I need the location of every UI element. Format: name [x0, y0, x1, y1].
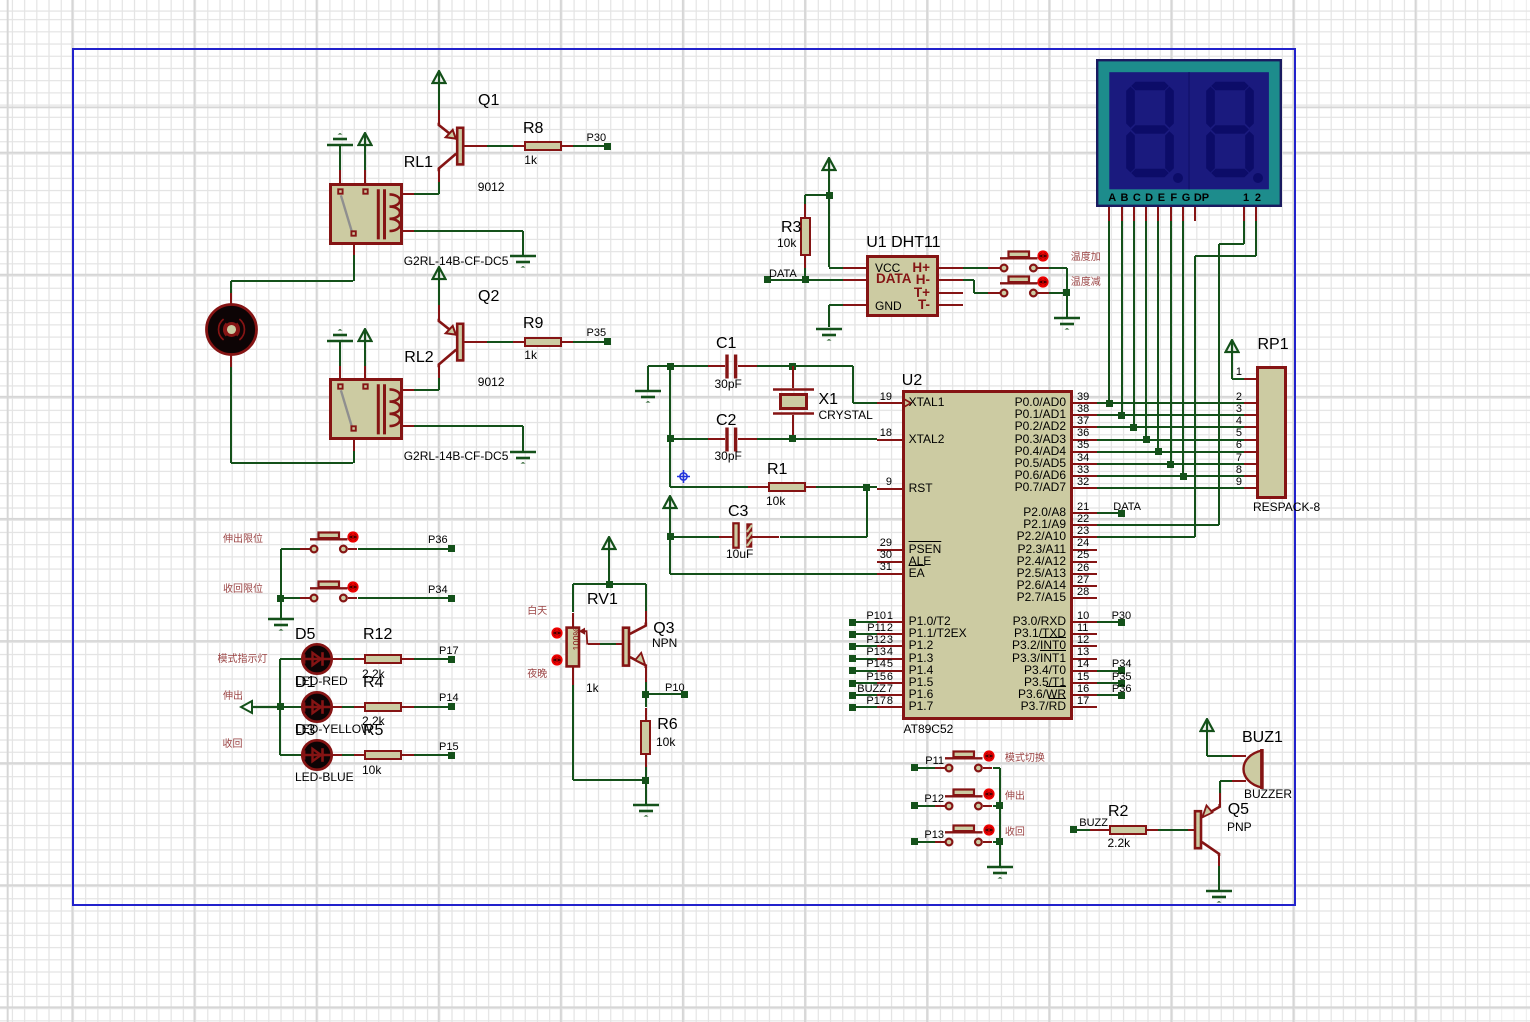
display segment E pin [1157, 207, 1159, 221]
U2 pin number 4 [863, 646, 893, 658]
wire P0.0 to RP1 [1097, 402, 1244, 404]
U2 pin 18 stub [877, 439, 901, 441]
wire [1231, 353, 1233, 379]
label R8 [523, 120, 543, 138]
wire net P17 [414, 658, 452, 660]
wire [572, 584, 574, 612]
wire [280, 549, 282, 619]
push button (收回) [941, 822, 1003, 850]
RP1 pin number 1 [1222, 366, 1242, 378]
wire [230, 367, 232, 463]
wire [1220, 780, 1232, 782]
net label P35 [587, 327, 607, 339]
wire [1049, 292, 1067, 294]
X1 bottom lead [792, 415, 794, 439]
terminal P13 [849, 655, 856, 662]
wire [645, 682, 647, 694]
RL2 pin stub [364, 366, 366, 379]
U2 pin number 35 [1077, 439, 1089, 451]
U2 pin name [926, 652, 1066, 665]
label 收回 [1005, 827, 1025, 838]
junction [642, 777, 649, 784]
label R4 value [362, 715, 385, 728]
net label P12 [826, 634, 886, 646]
label Q5 [1228, 801, 1249, 819]
microcontroller U2 AT89C52 [902, 390, 1073, 720]
terminal P11 [849, 631, 856, 638]
DHT11 GND pin stub [843, 304, 867, 306]
RP1 pin 9 stub [1244, 487, 1256, 489]
label 模式切换 [1005, 753, 1045, 764]
power VCC arrow (buzzer) [1199, 718, 1215, 733]
push button (伸出限位) [306, 529, 368, 557]
wire [646, 693, 685, 695]
wire [573, 779, 646, 781]
label RESPACK-8 [1253, 501, 1320, 514]
wire net P12 [853, 645, 878, 647]
wire [805, 194, 829, 196]
U2 pin name [926, 627, 1066, 640]
Q2 base stub [463, 341, 487, 343]
label C1 value [715, 378, 742, 391]
Q2 emitter lead [438, 305, 440, 319]
U2 pin number 23 [1077, 525, 1089, 537]
net label P36 [428, 534, 448, 546]
display pin label A [1103, 192, 1121, 204]
wire net P14 [853, 670, 878, 672]
label R5 value [362, 764, 381, 777]
wire [573, 583, 646, 585]
U2 pin number 10 [1077, 610, 1089, 622]
terminal P15 [849, 680, 856, 687]
RP1 pin number 6 [1222, 439, 1242, 451]
U2 pin name P1.4 [909, 664, 934, 677]
wire net P11 [914, 767, 935, 769]
junction [789, 435, 796, 442]
wire P2.2 to display digit 2 [1097, 536, 1195, 538]
label R3 value [777, 237, 796, 250]
net label P12 [904, 793, 944, 805]
junction [996, 838, 1003, 845]
wire [828, 171, 830, 268]
terminal P12 [911, 802, 918, 809]
DHT11 DATA pin stub [843, 279, 867, 281]
R2 right lead [1147, 829, 1158, 831]
interactive button actuator icon [1037, 250, 1049, 262]
label C3 [728, 503, 748, 521]
label R1 [767, 461, 787, 479]
wire net BUZZ [1073, 829, 1090, 831]
RP1 pin number 9 [1222, 476, 1242, 488]
wire [993, 767, 1000, 769]
wire [669, 509, 671, 574]
transistor Q3 (NPN) [621, 608, 651, 672]
U2 pin number 28 [1077, 586, 1089, 598]
power VCC arrow (RL2 coil contact) [357, 328, 373, 343]
U2 pin number 15 [1077, 671, 1089, 683]
capacitor C2 [724, 427, 739, 452]
terminal P34 [448, 595, 455, 602]
label R2 value [1108, 837, 1131, 850]
U2 pin name [926, 664, 1066, 677]
net label P34 [428, 584, 448, 596]
U2 pin number 17 [1077, 695, 1089, 707]
Q5 collector lead [1218, 854, 1220, 867]
wire net P36 [358, 548, 452, 550]
wire [522, 231, 524, 256]
R8 left lead [513, 145, 524, 147]
terminal P14 [448, 703, 455, 710]
wire digit 2 [1195, 255, 1256, 257]
RP1 pin 7 stub [1244, 463, 1256, 465]
U2 pin name [909, 555, 932, 568]
RP1 pin 3 stub [1244, 414, 1256, 416]
display segment G pin [1182, 207, 1184, 221]
label Q1 [478, 92, 499, 110]
U2 pin name [926, 408, 1066, 421]
wire [645, 694, 647, 707]
U2 pin number 16 [1077, 683, 1089, 695]
label D1 [295, 674, 315, 692]
terminal DATA (right) [1118, 510, 1125, 517]
label 白天 [527, 606, 547, 617]
label RV1 [587, 591, 618, 609]
display pin label F [1165, 192, 1183, 204]
label RL2 [404, 349, 433, 367]
junction [667, 363, 674, 370]
U2 pin number 29 [862, 537, 892, 549]
U2 pin 14 stub [1073, 670, 1097, 672]
crystal X1 [771, 387, 816, 416]
label R2 [1108, 803, 1128, 821]
label Q3 [653, 620, 674, 638]
RV1 wiper lead [588, 643, 601, 645]
interactive button actuator icon [983, 824, 995, 836]
button pin stub [983, 767, 993, 769]
LED cathode lead [333, 658, 342, 660]
U2 pin 7 stub [877, 694, 901, 696]
U2 pin number 37 [1077, 415, 1089, 427]
wire [280, 658, 302, 660]
button pin stub [1037, 267, 1049, 269]
RV1 wiper percent [573, 627, 583, 650]
wire [487, 341, 513, 343]
wire [339, 342, 341, 366]
relay RL2 [329, 378, 403, 440]
wire [353, 255, 355, 281]
wire [757, 438, 878, 440]
resistor pack RP1 RESPACK-8 [1256, 366, 1286, 499]
label C2 [716, 412, 736, 430]
C1 left lead [708, 365, 725, 367]
ground (RL2 coil) [509, 450, 537, 466]
U2 pin name [926, 433, 1066, 446]
terminal P10 [681, 691, 688, 698]
wire net P15 [853, 682, 878, 684]
LED D5 LED-RED [300, 642, 334, 676]
RP1 pin 4 stub [1244, 426, 1256, 428]
U2 pin number 33 [1077, 464, 1089, 476]
junction [802, 276, 809, 283]
resistor lead [402, 754, 414, 756]
U2 pin number 7 [863, 683, 893, 695]
Q1 base stub [463, 145, 487, 147]
wire [414, 389, 439, 391]
U2 pin number 12 [1077, 634, 1089, 646]
U2 pin name [926, 700, 1066, 713]
U2 pin 13 stub [1073, 658, 1097, 660]
display pin label D [1140, 192, 1158, 204]
net label P13 [826, 646, 886, 658]
label R9 [523, 315, 543, 333]
U2 pin name [926, 530, 1066, 543]
R3 bottom lead [804, 256, 806, 268]
U2 pin 10 stub [1073, 621, 1097, 623]
X1 top lead [792, 366, 794, 388]
junction [277, 595, 284, 602]
DHT11 H- pin stub [939, 279, 964, 281]
button pin stub [348, 548, 358, 550]
U2 pin name P1.2 [909, 639, 934, 652]
wire net P15 [414, 754, 452, 756]
terminal BUZZ [1070, 826, 1077, 833]
wire [364, 342, 366, 366]
R6 top lead [645, 708, 647, 720]
U2 pin number 1 [863, 610, 893, 622]
ground (DHT11) [815, 327, 843, 343]
U2 pin 36 stub [1073, 439, 1097, 441]
display segment B pin [1121, 207, 1123, 221]
terminal P11 [911, 764, 918, 771]
Q3 base lead [616, 643, 623, 645]
U2 pin number 36 [1077, 427, 1089, 439]
label D3 [295, 722, 315, 740]
LED cathode lead [333, 754, 342, 756]
U2 pin name [926, 615, 1066, 628]
terminal BUZZ [849, 692, 856, 699]
U2 pin name [926, 591, 1066, 604]
junction [996, 802, 1003, 809]
label Q3 value [652, 637, 677, 650]
U2 pin name [926, 567, 1066, 580]
RL1 coil pin stub [403, 193, 414, 195]
terminal P17 [849, 704, 856, 711]
resistor lead [402, 706, 414, 708]
RL2 coil pin stub [403, 425, 414, 427]
U2 pin 5 stub [877, 670, 901, 672]
wire [1066, 293, 1068, 318]
U2 pin name [909, 543, 942, 556]
wire [853, 402, 878, 404]
RV1 top lead [572, 613, 574, 628]
U2 pin 39 stub [1073, 402, 1097, 404]
U2 pin name [926, 396, 1066, 409]
wire net P11 [853, 633, 878, 635]
junction [789, 363, 796, 370]
U2 pin name [926, 481, 1066, 494]
RL1 coil pin stub [403, 230, 414, 232]
U2 pin number 30 [862, 549, 892, 561]
label U1 DHT11 [866, 234, 940, 252]
U2 pin name P1.3 [909, 652, 934, 665]
U2 pin name [926, 555, 1066, 568]
wire [1219, 781, 1221, 793]
wire [963, 267, 987, 269]
label U2 [902, 372, 922, 390]
wire [572, 685, 574, 780]
RP1 pin 1 stub [1244, 378, 1256, 380]
interactive button actuator icon [1037, 276, 1049, 288]
wire [670, 536, 719, 538]
XTAL1 input marker [903, 398, 913, 408]
resistor R1 [768, 482, 806, 492]
label BUZ1 [1242, 729, 1283, 747]
U2 pin 2 stub [877, 633, 901, 635]
wire [573, 341, 605, 343]
LED D1 LED-YELLOW [300, 690, 334, 724]
RL2 pin stub [339, 366, 341, 379]
U2 pin 12 stub [1073, 645, 1097, 647]
label RL1 value [404, 255, 509, 268]
wire [670, 486, 748, 488]
resistor R4 [364, 702, 402, 712]
resistor R2 [1109, 825, 1147, 835]
junction display C to P0.2 [1130, 424, 1137, 431]
label 夜晚 [527, 669, 547, 680]
U2 pin 32 stub [1073, 487, 1097, 489]
display segment A pin [1108, 207, 1110, 221]
RP1 pin 6 stub [1244, 451, 1256, 453]
wire net P17 [853, 706, 878, 708]
wire [645, 780, 647, 803]
label RL1 [404, 154, 433, 172]
wire [670, 438, 708, 440]
display digit 2 pin [1255, 207, 1257, 221]
U2 pin number 2 [863, 622, 893, 634]
U2 pin 6 stub [877, 682, 901, 684]
label RP1 [1258, 336, 1289, 354]
label R8 value [524, 154, 537, 167]
wire [438, 182, 440, 194]
wire [522, 426, 524, 451]
potentiometer RV1 [565, 626, 599, 668]
ground (inverted, RL2 NC contact) [326, 328, 354, 344]
U2 pin number 6 [863, 671, 893, 683]
motor + lead [230, 293, 232, 305]
relay RL1 [329, 183, 403, 245]
display pin label G [1177, 192, 1195, 204]
display pin label B [1116, 192, 1134, 204]
net label P13 [904, 829, 944, 841]
power VCC arrow (EA) [662, 495, 678, 510]
button pin stub [988, 292, 1001, 294]
U2 pin 30 stub [877, 561, 901, 563]
net label BUZZ [1064, 817, 1108, 829]
C2 left lead [708, 438, 725, 440]
U2 pin 4 stub [877, 658, 901, 660]
U2 pin 1 stub [877, 621, 901, 623]
U2 pin number 18 [862, 427, 892, 439]
U2 pin number 39 [1077, 391, 1089, 403]
RP1 pin 2 stub [1244, 402, 1256, 404]
label 温度减 [1071, 277, 1101, 288]
wire display F [1170, 221, 1172, 465]
wire digit 1 [1243, 221, 1245, 245]
label R12 [363, 626, 392, 644]
U2 pin 35 stub [1073, 451, 1097, 453]
RV1 bottom lead [572, 666, 574, 686]
no-connect origin marker [676, 469, 691, 484]
RP1 pin 8 stub [1244, 475, 1256, 477]
sensor U1 DHT11 [866, 255, 939, 317]
Q2 collector lead [438, 367, 440, 378]
U2 pin name [926, 445, 1066, 458]
wire [231, 280, 353, 282]
net label DATA (left) [769, 268, 797, 280]
wire [1158, 829, 1188, 831]
display pin label 2 [1249, 192, 1267, 204]
wire [1049, 267, 1067, 269]
U2 pin 37 stub [1073, 426, 1097, 428]
wire [670, 573, 877, 575]
power VCC arrow (RL1 coil contact) [357, 132, 373, 147]
U2 pin 24 stub [1073, 549, 1097, 551]
wire [414, 425, 523, 427]
junction [1063, 289, 1070, 296]
net label P34 [1112, 658, 1132, 670]
ground (RL1 coil) [509, 254, 537, 270]
LED cathode lead [333, 706, 342, 708]
wire [648, 365, 708, 367]
terminal P10 [849, 619, 856, 626]
label Q5 value [1227, 821, 1252, 834]
U2 pin number 27 [1077, 574, 1089, 586]
buzzer BUZ1 [1240, 747, 1266, 791]
net label P14 [826, 658, 886, 670]
junction [606, 581, 613, 588]
label R12 value [362, 668, 385, 681]
U2 pin number 34 [1077, 452, 1089, 464]
U2 pin name [909, 396, 945, 409]
label LED-YELLOW [295, 723, 372, 736]
junction display A to P0.0 [1106, 400, 1113, 407]
RL2 coil pin stub [403, 389, 414, 391]
wire [280, 706, 302, 708]
label LED-RED [295, 675, 348, 688]
Q3 emitter lead [645, 668, 647, 683]
wire P0.4 to RP1 [1097, 451, 1244, 453]
Q5 base lead [1188, 829, 1194, 831]
wire [281, 548, 301, 550]
pin label VCC [875, 262, 900, 275]
terminal P30 [604, 143, 611, 150]
wire P0.7 to RP1 [1097, 487, 1244, 489]
Q5 emitter lead [1219, 793, 1221, 807]
label RL2 value [404, 450, 509, 463]
wire net DATA [1097, 512, 1122, 514]
U2 pin number 5 [863, 658, 893, 670]
U2 pin 22 stub [1073, 524, 1097, 526]
label R4 [363, 674, 383, 692]
terminal P35 [604, 338, 611, 345]
junction display D to P0.3 [1143, 436, 1150, 443]
U2 pin number 9 [862, 476, 892, 488]
display pin label C [1128, 192, 1146, 204]
resistor R8 [524, 141, 562, 151]
resistor lead [354, 706, 364, 708]
wire [342, 706, 364, 708]
terminal P17 [448, 656, 455, 663]
